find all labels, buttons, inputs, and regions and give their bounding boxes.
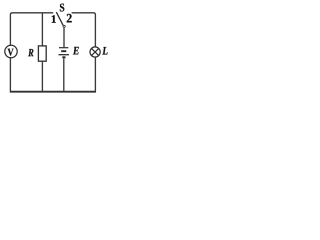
switch S pivot circle: [63, 25, 65, 27]
wire resistor branch upper: [41, 14, 43, 46]
wire right edge lower: [94, 57, 96, 91]
switch S blade: [56, 12, 63, 25]
wire battery branch upper: [63, 28, 65, 47]
battery E plate short 1: [61, 50, 66, 52]
battery E plate short 2: [62, 56, 65, 58]
voltmeter V glyph: [8, 49, 14, 56]
label L: [102, 47, 107, 55]
label S: [60, 4, 64, 12]
lamp L cross: [92, 48, 99, 55]
battery E plate long 1: [59, 47, 68, 49]
label 2: [67, 14, 72, 23]
wire top-left segment + left edge upper: [10, 13, 53, 46]
resistor R body: [38, 46, 46, 61]
label R: [28, 49, 33, 56]
lamp L circle: [90, 47, 100, 57]
label E: [73, 47, 79, 55]
label 1: [52, 15, 56, 23]
wire bottom: [10, 91, 96, 93]
wire battery branch lower: [63, 58, 65, 91]
wire left edge lower: [9, 58, 11, 92]
wire top-right segment + right edge upper: [72, 13, 96, 47]
wire resistor branch lower: [41, 61, 43, 91]
voltmeter V circle: [5, 45, 17, 57]
battery E plate long 2: [59, 54, 70, 56]
